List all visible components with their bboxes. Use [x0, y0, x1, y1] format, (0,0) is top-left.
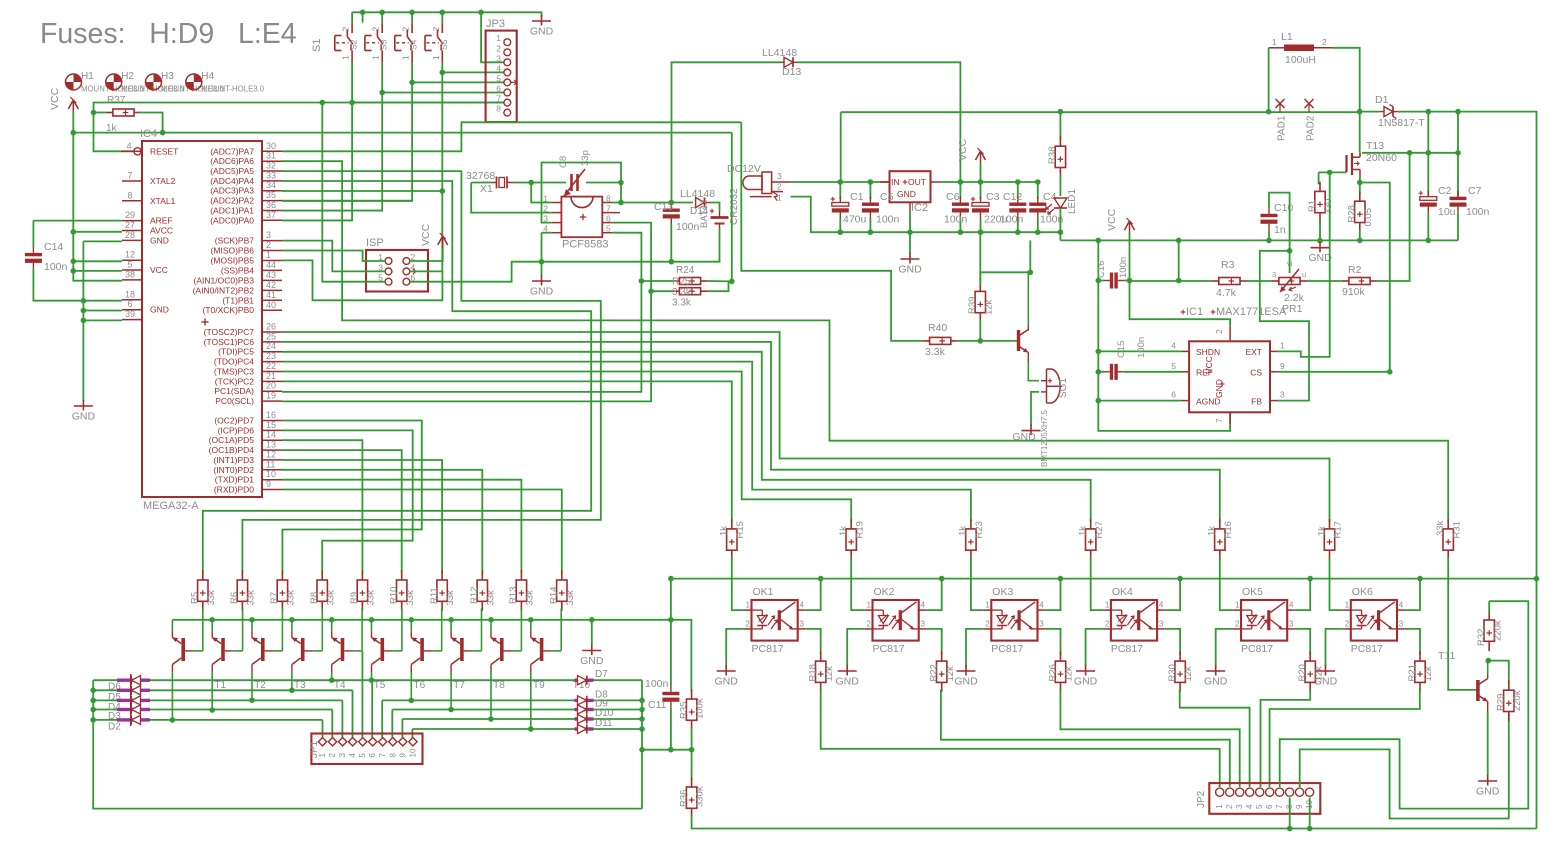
svg-text:4: 4 [921, 601, 926, 610]
svg-text:VCC: VCC [1204, 356, 1214, 374]
svg-text:PCF8583: PCF8583 [562, 239, 608, 251]
svg-text:1: 1 [266, 250, 271, 260]
svg-text:OK1: OK1 [753, 586, 774, 598]
svg-text:3.3k: 3.3k [672, 298, 692, 309]
svg-text:1k: 1k [1316, 526, 1327, 536]
svg-text:32768: 32768 [466, 170, 495, 182]
svg-text:CS: CS [1250, 368, 1262, 378]
svg-text:38: 38 [125, 269, 135, 279]
svg-text:C15: C15 [1116, 341, 1127, 358]
svg-text:2: 2 [746, 620, 751, 629]
svg-text:(AIN1/OC0)PB3: (AIN1/OC0)PB3 [194, 275, 255, 285]
svg-text:R30: R30 [1167, 664, 1178, 681]
svg-text:1: 1 [985, 601, 990, 610]
svg-text:(OC1B)PD4: (OC1B)PD4 [209, 445, 255, 455]
svg-text:33: 33 [266, 170, 276, 180]
svg-text:1: 1 [496, 33, 501, 43]
svg-text:2: 2 [341, 27, 351, 32]
svg-text:2: 2 [777, 182, 782, 192]
svg-text:VCC: VCC [1106, 208, 1118, 231]
svg-text:C5: C5 [880, 191, 894, 203]
svg-text:33k: 33k [445, 590, 456, 606]
svg-text:1: 1 [1215, 804, 1224, 809]
svg-text:T7: T7 [453, 680, 465, 691]
svg-text:R16: R16 [1223, 521, 1234, 538]
svg-text:LL4148: LL4148 [762, 47, 797, 59]
svg-text:H2: H2 [121, 71, 134, 82]
svg-text:2: 2 [1225, 804, 1234, 809]
svg-text:(TOSC1)PC6: (TOSC1)PC6 [204, 337, 255, 347]
svg-text:EXT: EXT [1245, 347, 1262, 357]
svg-text:1: 1 [431, 55, 441, 60]
svg-text:16: 16 [266, 410, 276, 420]
svg-text:6: 6 [1171, 390, 1176, 400]
svg-text:MAX1771ESA: MAX1771ESA [1216, 306, 1287, 318]
svg-text:GND: GND [150, 235, 169, 245]
svg-text:1N5817-T: 1N5817-T [1378, 117, 1425, 129]
svg-text:MOUNT-HOLE3.0: MOUNT-HOLE3.0 [201, 85, 264, 94]
svg-text:4: 4 [348, 753, 357, 758]
svg-text:MEGA32-A: MEGA32-A [143, 500, 199, 512]
svg-text:(ADC7)PA7: (ADC7)PA7 [210, 146, 254, 156]
svg-text:3: 3 [1399, 620, 1404, 629]
svg-text:2: 2 [1345, 620, 1350, 629]
svg-text:GND: GND [72, 411, 96, 423]
svg-text:(OC2)PD7: (OC2)PD7 [214, 416, 254, 426]
svg-text:R20: R20 [1297, 664, 1308, 681]
svg-text:12: 12 [125, 250, 135, 260]
svg-text:9: 9 [1280, 361, 1285, 371]
svg-text:CR2032: CR2032 [729, 188, 740, 225]
svg-text:31: 31 [266, 151, 276, 161]
svg-text:T13: T13 [1366, 140, 1384, 152]
svg-text:100n: 100n [676, 221, 700, 233]
svg-text:0.05: 0.05 [1363, 208, 1374, 227]
svg-text:5: 5 [127, 260, 132, 270]
svg-text:(ADC1)PA1: (ADC1)PA1 [210, 206, 254, 216]
svg-text:R28: R28 [1347, 205, 1358, 222]
svg-text:PAD2: PAD2 [1306, 115, 1317, 141]
svg-text:LED1: LED1 [1067, 189, 1078, 214]
svg-text:2: 2 [1214, 329, 1224, 334]
svg-text:R38: R38 [1047, 147, 1058, 164]
svg-text:5: 5 [606, 224, 611, 234]
svg-text:R27: R27 [1094, 521, 1105, 538]
svg-text:GND: GND [836, 676, 860, 688]
svg-text:6: 6 [1265, 804, 1274, 809]
svg-text:12k: 12k [824, 666, 835, 682]
svg-text:2: 2 [496, 43, 501, 53]
svg-text:PC817: PC817 [1241, 643, 1273, 655]
svg-text:2: 2 [328, 753, 337, 758]
svg-text:IC1: IC1 [1186, 306, 1203, 318]
svg-text:S2: S2 [349, 39, 359, 50]
svg-text:7: 7 [1275, 804, 1284, 809]
svg-text:3: 3 [777, 171, 782, 181]
svg-text:SG1: SG1 [1058, 378, 1069, 398]
svg-text:R10: R10 [389, 587, 400, 604]
svg-text:C7: C7 [1468, 185, 1482, 197]
svg-text:1k: 1k [1078, 526, 1089, 536]
svg-text:R13: R13 [508, 587, 519, 604]
svg-text:(INT0)PD2: (INT0)PD2 [213, 465, 254, 475]
svg-text:1: 1 [1272, 37, 1277, 47]
svg-text:470u: 470u [843, 214, 867, 226]
svg-text:23: 23 [266, 351, 276, 361]
svg-text:(ADC5)PA5: (ADC5)PA5 [210, 166, 254, 176]
svg-text:100n: 100n [876, 214, 900, 226]
svg-text:(MISO)PB6: (MISO)PB6 [211, 246, 255, 256]
svg-text:R40: R40 [928, 322, 947, 334]
svg-text:9: 9 [266, 479, 271, 489]
svg-text:S1: S1 [311, 39, 323, 52]
svg-text:1: 1 [1235, 601, 1240, 610]
svg-text:37: 37 [266, 210, 276, 220]
svg-text:R1: R1 [1307, 200, 1318, 212]
svg-text:1: 1 [401, 55, 411, 60]
svg-text:39: 39 [125, 309, 135, 319]
svg-text:4: 4 [1159, 601, 1164, 610]
svg-text:18: 18 [125, 289, 135, 299]
svg-text:R36: R36 [678, 790, 689, 807]
svg-text:3: 3 [1159, 620, 1164, 629]
svg-text:(T1)PB1: (T1)PB1 [222, 295, 254, 305]
svg-text:100n: 100n [645, 678, 669, 690]
svg-text:T1: T1 [214, 680, 226, 691]
svg-text:3: 3 [1289, 620, 1294, 629]
svg-text:4: 4 [127, 141, 132, 151]
svg-text:28: 28 [125, 230, 135, 240]
svg-text:GND: GND [1074, 676, 1098, 688]
svg-text:VCC: VCC [957, 138, 969, 161]
svg-text:100n: 100n [1000, 214, 1024, 226]
svg-text:1k: 1k [719, 526, 730, 536]
svg-text:VCC: VCC [150, 265, 168, 275]
svg-text:1: 1 [1345, 601, 1350, 610]
svg-text:R26: R26 [1047, 664, 1058, 681]
svg-text:22: 22 [266, 361, 276, 371]
svg-text:X1: X1 [480, 183, 493, 195]
svg-text:220k: 220k [1512, 690, 1523, 711]
svg-text:R31: R31 [1451, 521, 1462, 538]
svg-text:5: 5 [1255, 804, 1264, 809]
svg-text:44: 44 [266, 260, 276, 270]
svg-text:1: 1 [318, 753, 327, 758]
svg-text:24: 24 [266, 341, 276, 351]
svg-text:RESET: RESET [150, 146, 178, 156]
svg-text:GND: GND [150, 305, 169, 315]
svg-text:10u: 10u [1438, 206, 1456, 218]
svg-text:(ICP)PD6: (ICP)PD6 [218, 425, 255, 435]
svg-text:C2: C2 [1438, 185, 1452, 197]
svg-text:(AIN0/INT2)PB2: (AIN0/INT2)PB2 [193, 285, 255, 295]
svg-text:(TDI)PC5: (TDI)PC5 [218, 347, 254, 357]
svg-text:3: 3 [921, 620, 926, 629]
svg-text:R6: R6 [229, 592, 240, 604]
svg-text:AREF: AREF [150, 216, 173, 226]
svg-text:T9: T9 [533, 680, 545, 691]
svg-text:FB: FB [1251, 397, 1262, 407]
svg-text:36: 36 [266, 200, 276, 210]
svg-text:R32: R32 [1476, 629, 1487, 646]
svg-text:1: 1 [1105, 601, 1110, 610]
svg-text:2: 2 [431, 27, 441, 32]
svg-text:GND: GND [580, 655, 604, 667]
svg-text:3: 3 [1272, 270, 1276, 279]
svg-text:6: 6 [496, 84, 501, 94]
svg-text:330: 330 [1323, 199, 1334, 215]
svg-text:DC12V: DC12V [727, 163, 761, 175]
svg-text:(TMS)PC3: (TMS)PC3 [214, 367, 254, 377]
svg-text:4: 4 [1245, 804, 1254, 809]
svg-text:33k: 33k [1435, 520, 1446, 536]
svg-text:IC4: IC4 [140, 128, 157, 140]
svg-text:25: 25 [266, 331, 276, 341]
svg-text:29: 29 [125, 210, 135, 220]
svg-text:3: 3 [266, 230, 271, 240]
svg-text:C4: C4 [1043, 191, 1057, 203]
svg-text:H4: H4 [201, 71, 214, 82]
svg-text:(RXD)PD0: (RXD)PD0 [214, 485, 254, 495]
svg-text:PC0(SCL): PC0(SCL) [215, 396, 254, 406]
svg-text:5: 5 [1171, 361, 1176, 371]
svg-text:JP3: JP3 [486, 18, 505, 30]
svg-text:41: 41 [266, 290, 276, 300]
svg-text:1n: 1n [1274, 224, 1286, 236]
svg-text:1: 1 [371, 55, 381, 60]
svg-text:(ADC6)PA6: (ADC6)PA6 [210, 156, 254, 166]
svg-text:(ADC4)PA4: (ADC4)PA4 [210, 176, 254, 186]
svg-text:4.7k: 4.7k [1216, 287, 1237, 299]
svg-text:Fuses: H:D9 L:E4: Fuses: H:D9 L:E4 [40, 18, 297, 50]
svg-text:4: 4 [1289, 601, 1294, 610]
svg-text:OUT: OUT [908, 177, 926, 187]
svg-text:1: 1 [341, 55, 351, 60]
svg-text:GND: GND [898, 264, 922, 276]
svg-text:R3: R3 [1221, 259, 1235, 271]
svg-text:7: 7 [127, 171, 132, 181]
svg-text:OK2: OK2 [874, 586, 895, 598]
svg-text:2: 2 [1235, 620, 1240, 629]
svg-text:R25: R25 [672, 277, 691, 288]
svg-text:100n: 100n [1466, 206, 1490, 218]
svg-text:20: 20 [266, 381, 276, 391]
svg-text:(SS)PB4: (SS)PB4 [221, 265, 254, 275]
svg-text:PC817: PC817 [991, 643, 1023, 655]
svg-text:4: 4 [800, 601, 805, 610]
svg-text:2: 2 [371, 27, 381, 32]
svg-text:SHDN: SHDN [1196, 347, 1220, 357]
svg-text:L1: L1 [1281, 31, 1293, 43]
svg-text:C1: C1 [850, 191, 864, 203]
svg-text:OK5: OK5 [1242, 586, 1263, 598]
svg-text:33p: 33p [580, 150, 591, 166]
svg-text:3: 3 [1039, 620, 1044, 629]
svg-text:(MOSI)PB5: (MOSI)PB5 [211, 256, 255, 266]
svg-text:R11: R11 [429, 587, 440, 604]
svg-text:3: 3 [1280, 390, 1285, 400]
svg-text:R23: R23 [974, 521, 985, 538]
svg-text:OK6: OK6 [1352, 586, 1373, 598]
svg-text:8: 8 [606, 194, 611, 204]
svg-text:S4: S4 [409, 39, 419, 50]
svg-text:6: 6 [606, 214, 611, 224]
svg-text:H3: H3 [161, 71, 174, 82]
svg-text:7: 7 [606, 204, 611, 214]
svg-text:C12: C12 [1003, 191, 1022, 203]
svg-text:12k: 12k [945, 666, 956, 682]
svg-text:100uH: 100uH [1285, 54, 1316, 66]
svg-text:1k: 1k [838, 526, 849, 536]
svg-text:R21: R21 [1407, 664, 1418, 681]
svg-text:PC1(SDA): PC1(SDA) [214, 386, 254, 396]
svg-text:C10: C10 [1274, 202, 1293, 214]
svg-text:GND: GND [530, 26, 554, 38]
svg-text:14: 14 [266, 430, 276, 440]
svg-text:33k: 33k [286, 590, 297, 606]
svg-text:R24: R24 [676, 265, 695, 276]
svg-text:3.3k: 3.3k [925, 346, 946, 358]
svg-text:R7: R7 [269, 592, 280, 604]
svg-text:3: 3 [496, 53, 501, 63]
svg-text:19: 19 [266, 391, 276, 401]
svg-text:R5: R5 [190, 592, 201, 604]
svg-text:GND: GND [954, 676, 978, 688]
svg-text:(TDO)PC4: (TDO)PC4 [214, 357, 254, 367]
svg-text:33k: 33k [366, 590, 377, 606]
svg-text:(T0/XCK)PB0: (T0/XCK)PB0 [203, 305, 255, 315]
svg-text:C11: C11 [648, 699, 667, 711]
svg-text:100n: 100n [944, 214, 968, 226]
svg-text:7: 7 [1214, 418, 1224, 423]
svg-text:13: 13 [266, 440, 276, 450]
svg-text:R29: R29 [1496, 694, 1507, 711]
svg-text:43: 43 [266, 270, 276, 280]
svg-text:33k: 33k [405, 590, 416, 606]
svg-text:(INT1)PD3: (INT1)PD3 [213, 455, 254, 465]
svg-text:T6: T6 [414, 680, 426, 691]
svg-text:(ADC0)PA0: (ADC0)PA0 [210, 215, 254, 225]
svg-text:1: 1 [867, 601, 872, 610]
svg-text:D11: D11 [595, 718, 613, 729]
svg-text:R18: R18 [808, 664, 819, 681]
svg-text:26: 26 [266, 322, 276, 332]
svg-text:1k: 1k [1207, 526, 1218, 536]
svg-text:AVCC: AVCC [150, 226, 173, 236]
svg-text:R37: R37 [107, 95, 126, 106]
svg-text:PC817: PC817 [752, 643, 784, 655]
svg-text:IC2: IC2 [911, 202, 928, 214]
svg-text:T5: T5 [374, 680, 386, 691]
svg-text:D13: D13 [782, 66, 801, 78]
svg-text:4: 4 [1399, 601, 1404, 610]
svg-text:GND: GND [897, 189, 916, 199]
svg-text:100n: 100n [1118, 257, 1129, 278]
svg-text:R22: R22 [929, 664, 940, 681]
svg-text:42: 42 [266, 280, 276, 290]
svg-text:7: 7 [496, 94, 501, 104]
svg-text:ISP: ISP [366, 237, 384, 249]
svg-text:(SCK)PB7: (SCK)PB7 [215, 236, 254, 246]
svg-text:11: 11 [266, 459, 275, 469]
svg-text:3: 3 [338, 753, 347, 758]
svg-text:7: 7 [378, 753, 387, 758]
svg-text:3: 3 [800, 620, 805, 629]
svg-text:33k: 33k [525, 590, 536, 606]
svg-text:1: 1 [1280, 341, 1285, 351]
svg-text:8: 8 [388, 753, 397, 758]
svg-text:C13: C13 [654, 201, 673, 213]
svg-text:R19: R19 [854, 521, 865, 538]
svg-text:GND: GND [1204, 676, 1228, 688]
svg-text:GND: GND [530, 286, 554, 298]
svg-text:GND: GND [1308, 252, 1332, 264]
svg-text:PC817: PC817 [1111, 643, 1143, 655]
svg-text:2: 2 [985, 620, 990, 629]
svg-text:PC817: PC817 [873, 643, 905, 655]
svg-text:12k: 12k [1183, 666, 1194, 682]
svg-text:OK3: OK3 [992, 586, 1013, 598]
svg-text:32: 32 [266, 161, 276, 171]
svg-text:(TOSC2)PC7: (TOSC2)PC7 [204, 327, 255, 337]
svg-text:20N60: 20N60 [1366, 152, 1397, 164]
svg-text:T8: T8 [493, 680, 505, 691]
svg-text:40: 40 [266, 300, 276, 310]
svg-text:8: 8 [127, 190, 132, 200]
svg-text:21: 21 [266, 371, 276, 381]
svg-text:30: 30 [266, 141, 276, 151]
svg-text:35: 35 [266, 190, 276, 200]
svg-text:100n: 100n [1136, 337, 1147, 358]
svg-text:(ADC3)PA3: (ADC3)PA3 [210, 186, 254, 196]
svg-text:(TCK)PC2: (TCK)PC2 [215, 376, 254, 386]
svg-text:C3: C3 [986, 191, 1000, 203]
svg-text:12k: 12k [1064, 666, 1075, 682]
svg-text:D1: D1 [1375, 94, 1389, 106]
svg-text:910k: 910k [1342, 286, 1366, 298]
svg-text:1: 1 [777, 193, 782, 203]
svg-text:33k: 33k [206, 590, 217, 606]
svg-text:15: 15 [266, 420, 276, 430]
svg-text:9: 9 [398, 753, 407, 758]
svg-text:12: 12 [266, 449, 276, 459]
svg-text:T11: T11 [1438, 650, 1455, 662]
svg-text:R9: R9 [349, 592, 360, 604]
svg-text:H1: H1 [81, 71, 94, 82]
svg-text:GND: GND [715, 676, 739, 688]
svg-text:R12: R12 [469, 587, 480, 604]
svg-text:PC817: PC817 [1351, 643, 1383, 655]
svg-text:12k: 12k [1313, 666, 1324, 682]
svg-text:100n: 100n [44, 261, 68, 273]
svg-text:R17: R17 [1333, 521, 1344, 538]
svg-text:10: 10 [266, 469, 276, 479]
svg-text:R35: R35 [678, 702, 689, 719]
svg-text:S5: S5 [439, 39, 449, 50]
svg-text:JP2: JP2 [1196, 790, 1207, 808]
svg-text:12k: 12k [1423, 666, 1434, 682]
svg-text:D2: D2 [108, 721, 121, 732]
svg-text:C6: C6 [946, 191, 960, 203]
svg-text:4: 4 [496, 63, 501, 73]
svg-text:(ADC2)PA2: (ADC2)PA2 [210, 196, 254, 206]
svg-text:330k: 330k [695, 786, 706, 807]
svg-text:33k: 33k [565, 590, 576, 606]
svg-text:VCC: VCC [420, 223, 432, 246]
svg-text:VCC: VCC [49, 87, 61, 110]
svg-text:u: u [1302, 270, 1306, 279]
svg-text:6: 6 [368, 753, 377, 758]
